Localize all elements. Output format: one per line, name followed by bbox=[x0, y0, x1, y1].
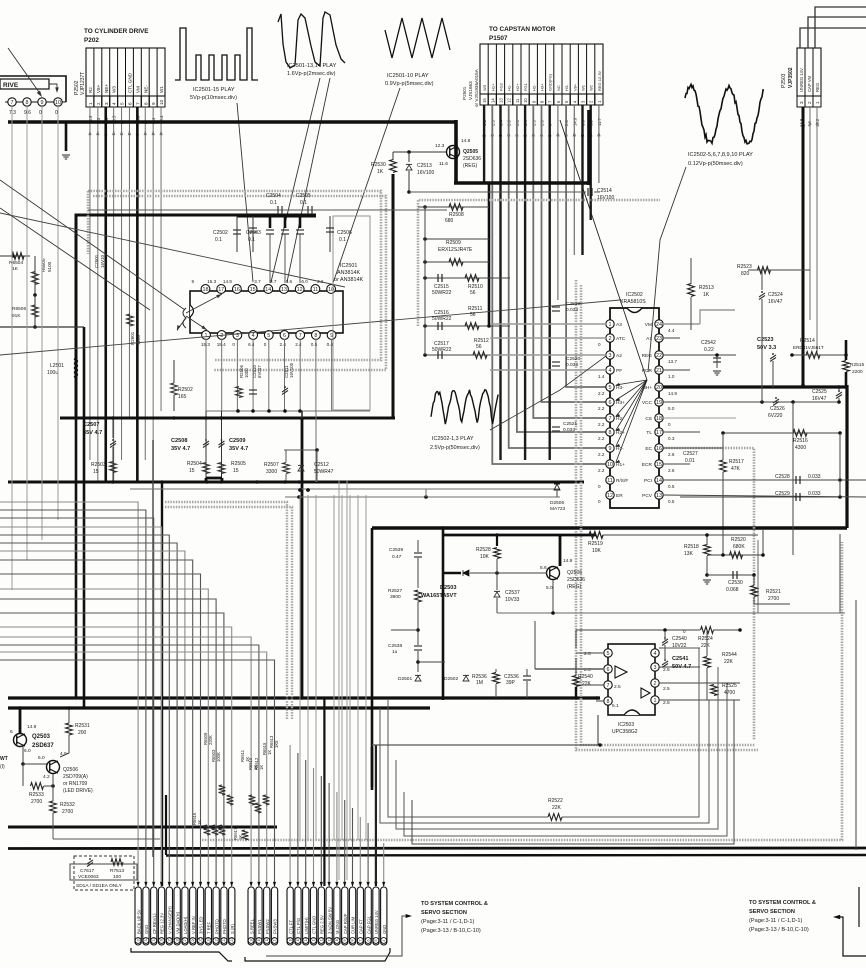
svg-text:12: 12 bbox=[297, 287, 303, 293]
svg-text:50V 3.3: 50V 3.3 bbox=[757, 345, 776, 351]
svg-text:C2506: C2506 bbox=[337, 230, 352, 236]
svg-text:L2501: L2501 bbox=[50, 363, 64, 369]
svg-text:C2529: C2529 bbox=[775, 491, 790, 497]
svg-text:2.5: 2.5 bbox=[663, 700, 670, 706]
svg-text:C2521: C2521 bbox=[563, 421, 577, 427]
svg-text:REG: REG bbox=[642, 353, 653, 359]
svg-text:R7513: R7513 bbox=[110, 868, 124, 874]
svg-text:2.6: 2.6 bbox=[668, 468, 675, 473]
svg-text:R2518: R2518 bbox=[684, 544, 699, 550]
svg-text:C2509: C2509 bbox=[229, 438, 245, 444]
svg-text:2.5: 2.5 bbox=[663, 667, 670, 673]
svg-text:Q2505: Q2505 bbox=[463, 149, 478, 155]
svg-text:CAP VM: CAP VM bbox=[807, 76, 812, 92]
box A right edge bbox=[845, 385, 848, 528]
svg-text:0: 0 bbox=[598, 499, 601, 504]
svg-text:TO SYSTEM CONTROL &: TO SYSTEM CONTROL & bbox=[749, 900, 816, 906]
svg-text:15: 15 bbox=[296, 938, 300, 942]
svg-text:6.0: 6.0 bbox=[24, 748, 31, 754]
svg-text:GND: GND bbox=[382, 925, 387, 934]
pin CUR LIM bbox=[349, 887, 355, 945]
wire below to right bbox=[53, 838, 160, 840]
thick bus y527 bbox=[372, 526, 847, 529]
svg-text:3: 3 bbox=[609, 353, 612, 359]
svg-text:2: 2 bbox=[96, 102, 101, 105]
svg-text:FG1: FG1 bbox=[523, 82, 528, 91]
svg-text:C2507: C2507 bbox=[83, 422, 99, 428]
svg-text:25: 25 bbox=[199, 938, 203, 942]
wires below pins 7-10 bbox=[11, 106, 13, 122]
svg-text:UNREG 14V: UNREG 14V bbox=[799, 68, 804, 92]
svg-text:22: 22 bbox=[222, 938, 226, 942]
pin M.ONG bbox=[334, 887, 340, 945]
svg-text:1.4: 1.4 bbox=[598, 374, 605, 379]
thick vertical to capstan connector bbox=[587, 110, 591, 185]
op-amp IC2503 UPC358G2 body bbox=[608, 644, 655, 715]
thick feed wire REG 2.5V pill bbox=[323, 698, 325, 886]
svg-text:6V047: 6V047 bbox=[257, 365, 262, 378]
svg-text:2.4: 2.4 bbox=[295, 342, 302, 347]
svg-text:0.47: 0.47 bbox=[392, 554, 402, 560]
svg-text:6.0: 6.0 bbox=[301, 279, 308, 284]
svg-text:4: 4 bbox=[609, 368, 612, 374]
svg-text:FNSW2: FNSW2 bbox=[265, 919, 270, 934]
svg-text:8: 8 bbox=[143, 102, 148, 105]
wire into pin arrow bbox=[250, 882, 253, 887]
svg-text:R2514: R2514 bbox=[800, 338, 815, 344]
svg-text:W3: W3 bbox=[482, 84, 487, 91]
svg-text:10: 10 bbox=[55, 100, 61, 106]
wire into pin arrow bbox=[265, 882, 268, 887]
svg-text:NC: NC bbox=[556, 85, 561, 91]
pin GND bbox=[381, 887, 387, 945]
svg-text:680K: 680K bbox=[733, 544, 745, 550]
svg-text:or VJS1936A015A: or VJS1936A015A bbox=[474, 68, 479, 107]
svg-text:13: 13 bbox=[656, 493, 662, 499]
svg-text:3.6: 3.6 bbox=[286, 279, 293, 284]
svg-text:IC2502-5,6,7,8,9,10 PLAY: IC2502-5,6,7,8,9,10 PLAY bbox=[688, 152, 753, 158]
vertical thick x162 feeds REG pill bbox=[161, 482, 163, 886]
svg-text:R2524: R2524 bbox=[698, 636, 713, 642]
svg-text:1: 1 bbox=[654, 698, 657, 704]
IC2503 right pins bbox=[651, 649, 659, 657]
svg-text:9: 9 bbox=[41, 100, 44, 106]
svg-text:1K: 1K bbox=[703, 292, 710, 298]
svg-text:R2544: R2544 bbox=[722, 652, 737, 658]
pin VM DAD(H) bbox=[174, 887, 180, 945]
svg-text:4.2: 4.2 bbox=[43, 774, 50, 780]
svg-text:16: 16 bbox=[656, 446, 662, 452]
thick bus corner down bbox=[454, 120, 458, 184]
svg-text:2.2: 2.2 bbox=[598, 452, 605, 457]
capstan wire bundle bbox=[483, 105, 485, 183]
wire into pin arrow bbox=[335, 882, 338, 887]
wire y497 to D2506 bbox=[285, 496, 560, 498]
svg-text:2: 2 bbox=[220, 333, 223, 339]
svg-text:1: 1 bbox=[815, 101, 820, 104]
pin PHOTO bbox=[213, 887, 219, 945]
svg-text:5.0: 5.0 bbox=[546, 585, 553, 591]
gray shield big bottom right bbox=[202, 542, 842, 840]
wire into pin arrow bbox=[374, 882, 377, 887]
thick stub to Q2506 bbox=[559, 535, 562, 566]
svg-text:0: 0 bbox=[232, 342, 235, 347]
svg-text:8: 8 bbox=[609, 430, 612, 436]
svg-text:R2530: R2530 bbox=[371, 162, 386, 168]
svg-text:29: 29 bbox=[168, 938, 172, 942]
svg-text:23: 23 bbox=[214, 938, 218, 942]
svg-text:50V 4.7: 50V 4.7 bbox=[672, 664, 691, 670]
svg-text:4: 4 bbox=[654, 651, 657, 657]
thick NH+ line / box A top bbox=[663, 385, 847, 388]
svg-text:R2517: R2517 bbox=[729, 459, 744, 465]
svg-text:21: 21 bbox=[230, 938, 234, 942]
svg-text:R2513: R2513 bbox=[699, 285, 714, 291]
svg-text:9: 9 bbox=[192, 279, 195, 284]
svg-text:0.1: 0.1 bbox=[339, 237, 346, 243]
wire left y327 bbox=[0, 326, 84, 328]
svg-text:W3: W3 bbox=[112, 86, 117, 93]
op-amp IC2502 XRA5810S body bbox=[610, 308, 659, 508]
svg-text:11: 11 bbox=[515, 98, 520, 103]
vertical thick left of IC2503 bbox=[371, 747, 374, 790]
svg-text:15: 15 bbox=[233, 468, 239, 474]
svg-text:VJS1663: VJS1663 bbox=[468, 81, 473, 100]
pin BACK UP 5V bbox=[135, 887, 141, 945]
waveform IC2501-10 triangle bbox=[385, 18, 450, 58]
pin PHOTO bbox=[221, 887, 227, 945]
svg-text:6: 6 bbox=[127, 102, 132, 105]
svg-text:R6506: R6506 bbox=[12, 306, 26, 312]
svg-text:C2523: C2523 bbox=[757, 337, 773, 343]
pin FNSW3 bbox=[271, 887, 277, 945]
svg-text:H3-: H3- bbox=[564, 84, 569, 91]
svg-text:PF: PF bbox=[616, 368, 622, 374]
svg-text:ER: ER bbox=[616, 493, 623, 499]
svg-text:MA723: MA723 bbox=[550, 506, 566, 512]
resistor R2519 10K in series bbox=[589, 532, 603, 539]
pin GND bbox=[143, 887, 149, 945]
svg-text:TO CYLINDER DRIVE: TO CYLINDER DRIVE bbox=[84, 28, 149, 35]
annotation line from sine label to IC2502 pins bbox=[648, 167, 686, 372]
svg-text:M.ONG: M.ONG bbox=[335, 920, 340, 934]
dashed box C7617 R7513 SD1A only bbox=[74, 856, 134, 890]
svg-text:CAP FG1: CAP FG1 bbox=[366, 915, 371, 934]
IC2502 right side wires bbox=[663, 323, 700, 325]
svg-text:R/S/F: R/S/F bbox=[616, 478, 628, 484]
svg-text:CAP FT: CAP FT bbox=[359, 919, 364, 934]
svg-text:12: 12 bbox=[507, 98, 512, 103]
box around Q2506 bbox=[497, 612, 845, 614]
svg-text:0: 0 bbox=[264, 342, 267, 347]
svg-text:22K: 22K bbox=[552, 805, 562, 811]
svg-text:ECR: ECR bbox=[642, 462, 653, 468]
svg-text:2.5Vp-p(50msec,div): 2.5Vp-p(50msec,div) bbox=[430, 445, 480, 451]
svg-text:6.4: 6.4 bbox=[248, 342, 255, 347]
svg-text:15: 15 bbox=[250, 287, 256, 293]
svg-text:35V 4.7: 35V 4.7 bbox=[83, 430, 102, 436]
svg-text:H3+: H3+ bbox=[540, 83, 545, 91]
junction dots on buses bbox=[111, 416, 115, 420]
svg-text:IC2501-15 PLAY: IC2501-15 PLAY bbox=[193, 87, 235, 93]
svg-text:39P: 39P bbox=[506, 680, 516, 686]
svg-text:1200: 1200 bbox=[136, 334, 141, 345]
svg-text:D2502: D2502 bbox=[444, 676, 458, 682]
svg-text:C2525: C2525 bbox=[812, 389, 827, 395]
svg-text:R2505: R2505 bbox=[231, 461, 246, 467]
svg-text:7: 7 bbox=[607, 683, 610, 689]
svg-text:9: 9 bbox=[151, 102, 156, 105]
wire into pin arrow bbox=[191, 882, 194, 887]
vertical thick x372 box B left bbox=[371, 528, 374, 787]
svg-text:0: 0 bbox=[598, 484, 601, 489]
svg-text:6: 6 bbox=[609, 400, 612, 406]
pin FNSW1 bbox=[256, 887, 262, 945]
arrow into right text bbox=[837, 917, 866, 956]
transistor Q2503 2SD637 bbox=[14, 734, 27, 747]
svg-text:R2540: R2540 bbox=[578, 674, 593, 680]
resistor R2508 680 bbox=[423, 205, 427, 209]
svg-text:0.5: 0.5 bbox=[668, 484, 675, 489]
svg-text:R2515: R2515 bbox=[850, 362, 864, 368]
svg-text:2.5: 2.5 bbox=[584, 651, 591, 657]
svg-text:D2503: D2503 bbox=[440, 585, 456, 591]
svg-text:22K: 22K bbox=[701, 643, 711, 649]
wire to Q2505 base bbox=[393, 151, 447, 153]
wire into pin arrow bbox=[215, 882, 218, 887]
svg-text:R2522: R2522 bbox=[548, 798, 563, 804]
svg-text:3: 3 bbox=[654, 665, 657, 671]
IC2501 bottom pins 1-9 bbox=[202, 331, 211, 340]
svg-text:3900: 3900 bbox=[390, 594, 401, 600]
svg-text:20: 20 bbox=[656, 385, 662, 391]
svg-text:GND: GND bbox=[144, 925, 149, 934]
svg-text:5: 5 bbox=[120, 102, 125, 105]
svg-text:15: 15 bbox=[482, 98, 487, 103]
link wire to system control text bbox=[266, 916, 408, 956]
thick vertical x489 bbox=[488, 183, 491, 326]
svg-text:91K: 91K bbox=[12, 313, 21, 319]
svg-text:18: 18 bbox=[656, 416, 662, 422]
svg-text:23: 23 bbox=[656, 336, 662, 342]
pins 7-10 of cylinder drive connector bbox=[5, 101, 66, 103]
svg-text:UNREG 14V: UNREG 14V bbox=[374, 910, 379, 934]
svg-text:(Page:3-11 / C-1,D-1): (Page:3-11 / C-1,D-1) bbox=[749, 918, 803, 924]
svg-text:7: 7 bbox=[359, 940, 363, 942]
svg-text:P202: P202 bbox=[84, 37, 99, 44]
svg-text:H1-: H1- bbox=[507, 84, 512, 91]
svg-text:2200: 2200 bbox=[852, 369, 863, 375]
svg-text:2SD709(A): 2SD709(A) bbox=[63, 774, 88, 780]
svg-text:PCI: PCI bbox=[644, 478, 652, 484]
pin UNREG 14V bbox=[373, 887, 379, 945]
svg-text:50WR22: 50WR22 bbox=[432, 290, 452, 296]
svg-text:0: 0 bbox=[668, 422, 671, 427]
svg-text:Q2506: Q2506 bbox=[567, 570, 582, 576]
svg-text:16V100: 16V100 bbox=[289, 362, 294, 378]
svg-text:5: 5 bbox=[609, 385, 612, 391]
svg-text:0.1: 0.1 bbox=[270, 200, 277, 206]
pin CTL FT bbox=[287, 887, 293, 945]
svg-text:14.9: 14.9 bbox=[27, 724, 37, 730]
top loop wires bbox=[576, 629, 700, 631]
wire into pin arrow bbox=[320, 882, 323, 887]
svg-text:1M: 1M bbox=[476, 680, 483, 686]
svg-text:18: 18 bbox=[203, 287, 209, 293]
pin REG 2.5V bbox=[318, 887, 324, 945]
svg-text:0.033: 0.033 bbox=[566, 362, 578, 368]
svg-text:3.7: 3.7 bbox=[270, 279, 277, 284]
svg-text:V8+: V8+ bbox=[572, 83, 577, 91]
svg-text:13.7: 13.7 bbox=[668, 359, 677, 364]
svg-text:24: 24 bbox=[656, 322, 662, 328]
svg-text:12: 12 bbox=[320, 938, 324, 942]
svg-text:0.12Vp-p(50msec.div): 0.12Vp-p(50msec.div) bbox=[688, 161, 743, 167]
annotation from waveform to pins bbox=[490, 356, 606, 430]
svg-text:22K: 22K bbox=[582, 681, 592, 687]
svg-text:C2512: C2512 bbox=[314, 462, 329, 468]
svg-text:5.0: 5.0 bbox=[668, 406, 675, 411]
svg-text:100u: 100u bbox=[47, 370, 58, 376]
svg-text:H2-: H2- bbox=[531, 84, 536, 91]
svg-text:5: 5 bbox=[374, 940, 378, 942]
svg-text:FG3: FG3 bbox=[499, 82, 504, 91]
svg-text:CAP R/S/F: CAP R/S/F bbox=[343, 913, 348, 934]
thick sub bus y535 bbox=[443, 534, 596, 537]
svg-text:C2539: C2539 bbox=[389, 547, 403, 553]
svg-text:1K: 1K bbox=[377, 169, 384, 175]
svg-text:31: 31 bbox=[152, 938, 156, 942]
svg-text:REG 12.3V: REG 12.3V bbox=[597, 70, 602, 91]
svg-text:C2501: C2501 bbox=[94, 254, 99, 268]
svg-text:P2503: P2503 bbox=[781, 73, 787, 88]
svg-text:33: 33 bbox=[136, 938, 140, 942]
svg-text:17: 17 bbox=[656, 430, 662, 436]
annotation lines from label to IC2501 pins 13,14 bbox=[271, 78, 320, 282]
svg-text:(REG): (REG) bbox=[567, 584, 582, 590]
svg-text:D2506: D2506 bbox=[550, 500, 564, 506]
connector outline bottom bbox=[131, 948, 232, 961]
thick bus y708 bbox=[8, 706, 430, 709]
pin S (R) bbox=[229, 887, 235, 945]
svg-text:CTL GND: CTL GND bbox=[127, 72, 132, 93]
svg-text:(Page:3-13 / B-10,C-10): (Page:3-13 / B-10,C-10) bbox=[749, 927, 809, 933]
svg-text:1.0: 1.0 bbox=[668, 374, 675, 379]
svg-text:17: 17 bbox=[273, 938, 277, 942]
svg-text:16V100: 16V100 bbox=[597, 195, 614, 201]
svg-text:4300: 4300 bbox=[795, 445, 806, 451]
svg-text:5: 5 bbox=[607, 651, 610, 657]
svg-text:(Page:3-11 / C-1,D-1): (Page:3-11 / C-1,D-1) bbox=[421, 919, 475, 925]
svg-text:0.01: 0.01 bbox=[685, 458, 695, 464]
pin 3NS LED bbox=[197, 887, 203, 945]
svg-text:12: 12 bbox=[607, 493, 613, 499]
pin CAP R/S/F bbox=[342, 887, 348, 945]
IC2501 top pins 18-10 bbox=[201, 285, 210, 294]
svg-text:3NS LED: 3NS LED bbox=[199, 917, 204, 934]
hook arrow from label box to pin 10 bbox=[49, 84, 57, 90]
svg-text:100: 100 bbox=[113, 874, 121, 880]
svg-text:R2523: R2523 bbox=[737, 264, 752, 270]
svg-text:or AN3814K: or AN3814K bbox=[334, 277, 363, 283]
pin S REEL bbox=[248, 887, 254, 945]
svg-text:2: 2 bbox=[609, 336, 612, 342]
diode D2503 WA165TA5VT bbox=[463, 570, 469, 576]
nested wire rectangles bottom right bbox=[388, 700, 548, 817]
svg-text:R2: R2 bbox=[88, 87, 93, 93]
svg-text:7.3: 7.3 bbox=[9, 110, 16, 116]
svg-text:7: 7 bbox=[299, 333, 302, 339]
annotation line from label to IC2501 pin 10 bbox=[333, 88, 400, 283]
svg-text:Q2503: Q2503 bbox=[32, 734, 51, 740]
pin CAP FT bbox=[357, 887, 363, 945]
svg-text:0.9Vp-p(5msec.div): 0.9Vp-p(5msec.div) bbox=[385, 81, 434, 87]
svg-text:1K5: 1K5 bbox=[274, 740, 279, 748]
svg-text:A2: A2 bbox=[616, 353, 622, 359]
svg-text:C2502: C2502 bbox=[213, 230, 228, 236]
svg-text:S REEL: S REEL bbox=[249, 918, 254, 934]
svg-text:14.9: 14.9 bbox=[223, 279, 232, 284]
svg-text:6: 6 bbox=[607, 667, 610, 673]
thick bus y698 bbox=[8, 696, 600, 699]
svg-text:1: 1 bbox=[88, 102, 93, 105]
svg-text:C2514: C2514 bbox=[597, 188, 612, 194]
svg-text:IC2501-10 PLAY: IC2501-10 PLAY bbox=[387, 73, 429, 79]
svg-text:V CHANGE(H): V CHANGE(H) bbox=[168, 906, 173, 934]
svg-text:11: 11 bbox=[327, 938, 331, 942]
svg-text:TL: TL bbox=[646, 430, 652, 436]
svg-text:16V10: 16V10 bbox=[100, 254, 105, 268]
svg-text:GND(FG): GND(FG) bbox=[548, 73, 553, 91]
wire into pin arrow bbox=[359, 882, 362, 887]
svg-text:LIMIT(H): LIMIT(H) bbox=[304, 917, 309, 934]
wire into pin arrow bbox=[137, 882, 140, 887]
svg-text:(LED DRIVE): (LED DRIVE) bbox=[63, 788, 93, 794]
svg-text:14.9: 14.9 bbox=[668, 391, 677, 396]
svg-text:21: 21 bbox=[656, 368, 662, 374]
svg-text:9.6: 9.6 bbox=[24, 110, 31, 116]
svg-text:SERVO SECTION: SERVO SECTION bbox=[421, 910, 467, 916]
transistor Q2506 LED drive bbox=[47, 761, 60, 774]
wire into pin arrow bbox=[273, 882, 276, 887]
svg-text:R2531: R2531 bbox=[75, 723, 90, 729]
capacitor stubs to pins bbox=[266, 229, 274, 231]
svg-text:22K: 22K bbox=[724, 659, 734, 665]
svg-text:13K: 13K bbox=[684, 551, 694, 557]
svg-text:2.2: 2.2 bbox=[598, 406, 605, 411]
svg-text:CS: CS bbox=[645, 416, 652, 422]
svg-text:2700: 2700 bbox=[62, 809, 73, 815]
svg-text:14: 14 bbox=[265, 287, 271, 293]
svg-text:4: 4 bbox=[382, 940, 386, 942]
svg-text:9: 9 bbox=[609, 446, 612, 452]
svg-text:10K: 10K bbox=[592, 548, 602, 554]
svg-text:1K: 1K bbox=[197, 820, 202, 825]
svg-text:0.068: 0.068 bbox=[726, 587, 739, 593]
svg-text:50WR22: 50WR22 bbox=[432, 316, 452, 322]
svg-text:R2519: R2519 bbox=[588, 541, 603, 547]
left vertical thick pair bbox=[75, 215, 78, 698]
svg-text:T REF: T REF bbox=[207, 922, 212, 934]
small zigzags above connector bbox=[219, 785, 226, 795]
svg-text:H1+: H1+ bbox=[490, 83, 495, 91]
svg-text:1u: 1u bbox=[392, 649, 398, 655]
IC2502 left pins bbox=[606, 320, 614, 328]
svg-text:14: 14 bbox=[304, 938, 308, 942]
connector (partial) cylinder drive IC outline bbox=[0, 76, 66, 102]
svg-text:5100: 5100 bbox=[47, 261, 52, 272]
svg-text:0.5: 0.5 bbox=[668, 499, 675, 504]
